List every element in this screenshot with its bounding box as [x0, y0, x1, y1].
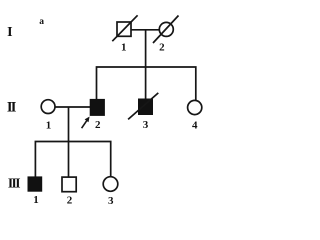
- svg-text:2: 2: [95, 119, 101, 131]
- svg-text:4: 4: [192, 120, 198, 132]
- individual I-2: deceased female (circle with slash): [153, 16, 179, 54]
- individual II-3: deceased affected male (filled square with slash): [128, 93, 158, 131]
- individual II-2: affected male proband (filled square): [90, 99, 104, 131]
- individual III-1: affected male (filled square): [28, 177, 42, 206]
- wire: I marriage line: [131, 29, 161, 31]
- individual II-4: female (circle): [188, 100, 202, 131]
- wire: III sibship line with corner drops to III-1 and III-3: [35, 142, 110, 178]
- proband arrow pointing at II-2: [82, 117, 90, 129]
- wire: drop from I couple down through II sibship to II-3: [145, 30, 147, 100]
- svg-text:1: 1: [46, 119, 52, 131]
- svg-text:a: a: [39, 17, 44, 27]
- svg-text:2: 2: [159, 42, 165, 54]
- svg-text:III: III: [8, 176, 20, 191]
- wire: II marriage line (II-1 x II-2): [55, 106, 91, 108]
- wire: II sibship line with corner drops to II-2 and II-4: [97, 67, 196, 101]
- svg-text:3: 3: [108, 195, 114, 207]
- svg-text:1: 1: [33, 194, 39, 206]
- svg-text:1: 1: [121, 42, 127, 54]
- individual I-1: deceased male (square with slash): [112, 15, 137, 53]
- svg-text:I: I: [7, 25, 12, 40]
- individual III-2: unaffected male (open square): [62, 177, 76, 207]
- svg-text:2: 2: [67, 195, 73, 207]
- svg-text:3: 3: [143, 119, 149, 131]
- wire: drop from II marriage through III sibship to III-2: [68, 107, 70, 177]
- individual II-1: female (circle): [41, 100, 55, 132]
- individual III-3: female (circle): [103, 177, 118, 207]
